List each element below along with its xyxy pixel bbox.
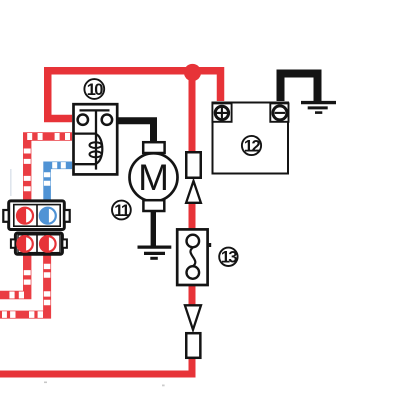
battery positive terminal box xyxy=(212,103,231,121)
ground: battery negative xyxy=(301,103,336,113)
relay contact right xyxy=(102,115,112,125)
relay U10 box xyxy=(74,104,118,174)
motor top terminal box xyxy=(143,142,164,153)
relay coil loop 1 xyxy=(90,142,102,148)
scan speck 2 xyxy=(162,385,165,387)
junction node xyxy=(184,64,201,81)
svg-text:13: 13 xyxy=(221,249,238,267)
relay coil loop 2 xyxy=(90,151,102,157)
fuse box tab xyxy=(209,243,212,247)
wire: red between fuse and lower arrow xyxy=(189,285,196,308)
connector block: upper inner frame xyxy=(14,205,60,227)
connector block: lower left tab xyxy=(11,239,16,247)
scan speck 1 xyxy=(44,382,47,384)
connector block: lower housing xyxy=(15,233,62,254)
battery negative circle xyxy=(273,106,287,120)
scan faint line xyxy=(10,169,12,196)
relay coil bottom lead xyxy=(73,163,96,165)
connector block: upper left tab xyxy=(3,210,8,222)
label 13 xyxy=(219,248,237,266)
connector block: lower right tab xyxy=(62,239,67,247)
relay contact bar xyxy=(80,109,110,111)
connector pin: red (upper left) xyxy=(17,208,33,224)
connector block: upper right tab xyxy=(64,210,69,222)
wire: red/white striped to relay coil top xyxy=(27,137,72,201)
connector block: upper divider xyxy=(36,205,38,227)
relay contact left xyxy=(78,115,88,125)
svg-text:10: 10 xyxy=(87,81,104,99)
connector: bullet receptacle lower xyxy=(186,333,200,358)
relay coil arc xyxy=(96,134,103,164)
wire: red/white striped lower-left no.2 xyxy=(0,255,47,315)
connector: bullet arrow up xyxy=(186,181,201,203)
label 12 xyxy=(242,136,261,155)
connector: bullet receptacle upper xyxy=(186,152,201,178)
wire: black relay contact to motor xyxy=(110,121,154,142)
fuse F13 box xyxy=(177,229,207,285)
connector block: lower inner frame xyxy=(18,235,60,253)
connector: bullet arrow down xyxy=(185,305,201,329)
wire: red/white striped lower-left no.1 xyxy=(0,255,27,295)
label 11 xyxy=(112,201,131,220)
motor M11 circle xyxy=(130,153,178,201)
wire: red between arrow and fuse xyxy=(189,200,196,230)
wire: black battery negative to ground xyxy=(281,74,318,102)
connector pin: red (lower right) xyxy=(40,236,56,252)
relay coil top lead xyxy=(73,132,96,134)
battery BT12 box xyxy=(213,103,289,174)
connector pin: blue (upper right) xyxy=(40,208,56,224)
svg-text:M: M xyxy=(138,157,169,198)
wire: red bottom run from lower connector to left edge xyxy=(0,357,192,374)
battery minus sign xyxy=(275,112,285,114)
ground: motor xyxy=(138,247,172,258)
label 10 xyxy=(84,79,104,99)
battery plus sign xyxy=(217,108,228,119)
battery positive circle xyxy=(215,106,228,119)
connector pin: red (lower left) xyxy=(17,236,33,252)
motor bottom terminal box xyxy=(143,200,164,211)
fuse element top circle xyxy=(187,235,200,248)
wire: motor to ground xyxy=(151,211,156,246)
wire: red battery positive feed (L shape top-left to battery) xyxy=(48,71,221,119)
svg-text:12: 12 xyxy=(244,137,261,155)
battery negative terminal box xyxy=(270,103,288,121)
relay armature line xyxy=(95,110,97,169)
fuse element S-curve xyxy=(190,248,195,267)
fuse element bottom circle xyxy=(187,266,200,279)
connector block: upper housing xyxy=(9,201,65,230)
wire: main vertical red from junction down to connector xyxy=(189,70,196,153)
svg-text:11: 11 xyxy=(114,202,130,220)
wire: blue/white striped to relay coil bottom xyxy=(47,165,72,200)
connector block: lower divider xyxy=(36,234,38,254)
